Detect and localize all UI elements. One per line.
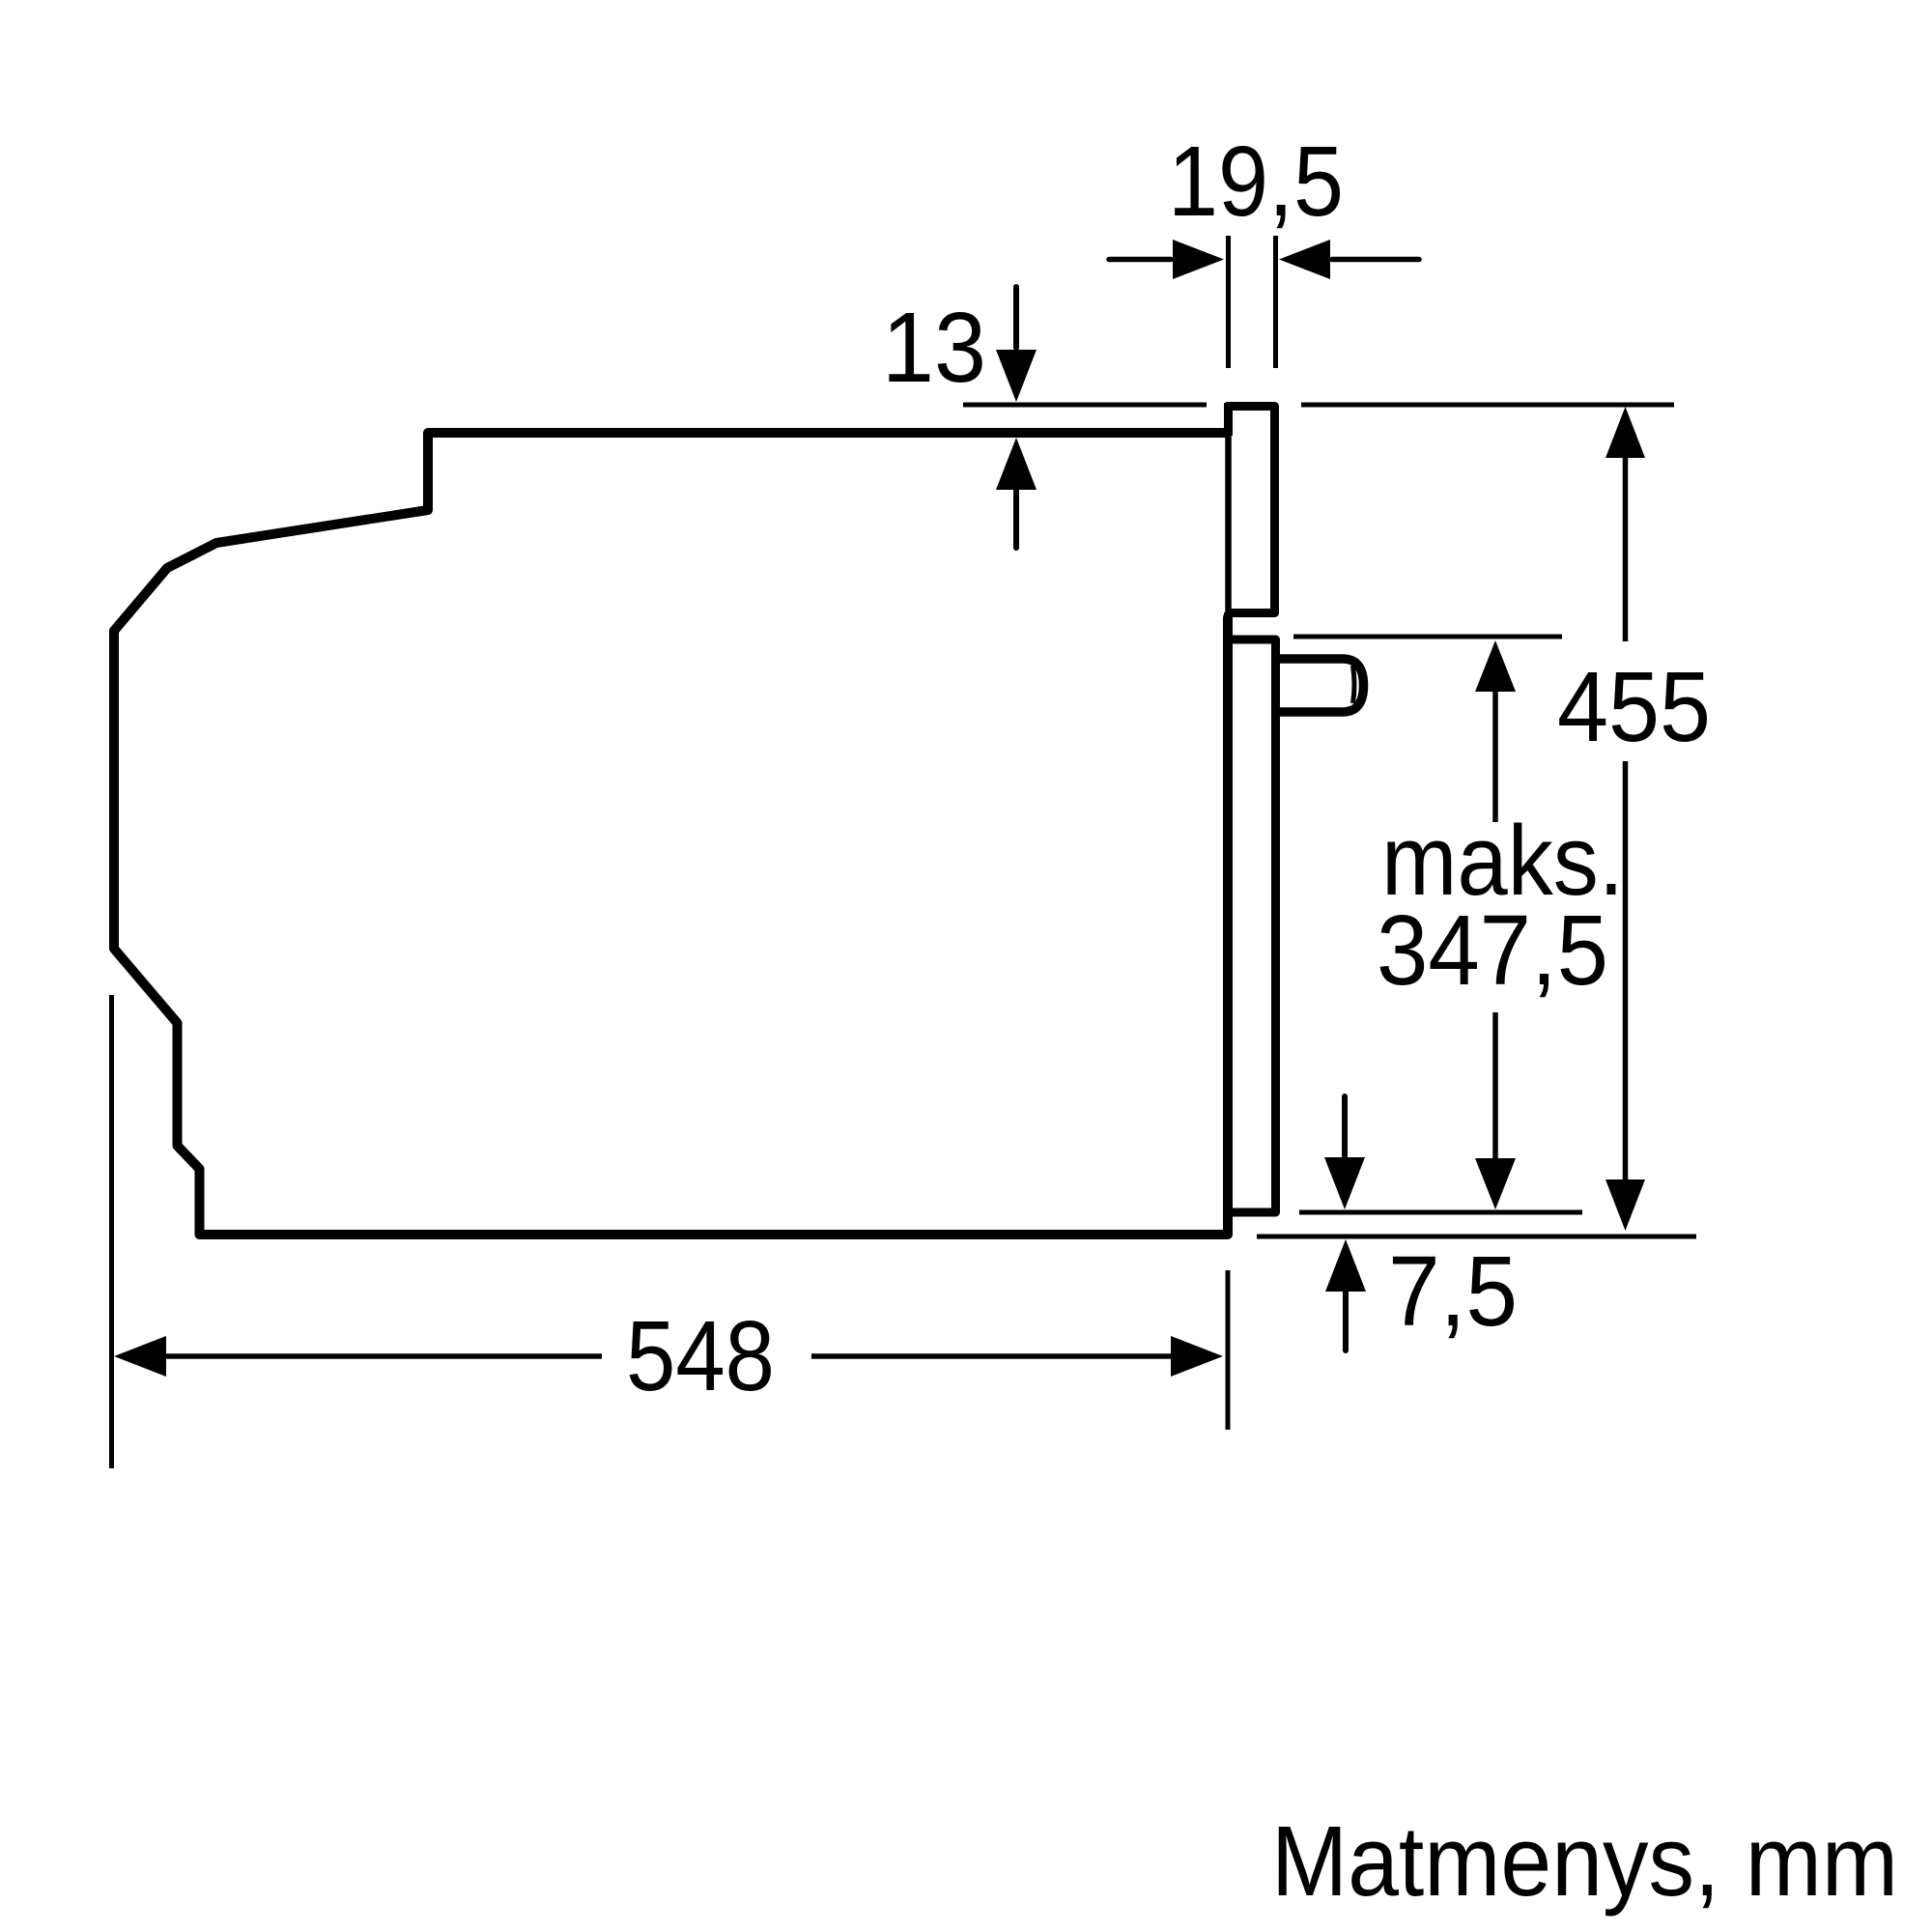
dim 13 down arrow bbox=[1013, 287, 1019, 348]
dim 13 up arrow bbox=[1013, 491, 1019, 548]
svg-text:Matmenys, mm: Matmenys, mm bbox=[1271, 1805, 1898, 1917]
body right face bbox=[1224, 612, 1232, 1235]
lower front panel bbox=[1228, 639, 1276, 1212]
dim 455 line + arrows bbox=[1623, 458, 1629, 1179]
extension line: 548 left bbox=[109, 995, 114, 1468]
extension line: 548 right bbox=[1226, 1270, 1231, 1430]
svg-text:7,5: 7,5 bbox=[1388, 1236, 1518, 1347]
dim 548 line + arrows bbox=[166, 1353, 1171, 1359]
dim 19,5 left arrow bbox=[1109, 257, 1171, 263]
dim 7,5 lower arrow (up) bbox=[1343, 1293, 1349, 1350]
thin reference line: appliance bottom level bbox=[1257, 1235, 1696, 1239]
knob face seam arc bbox=[1353, 666, 1355, 703]
thin reference line: top of niche (left of door) bbox=[963, 403, 1207, 408]
svg-text:13: 13 bbox=[882, 292, 986, 403]
thin reference line: top of niche (right of door) bbox=[1301, 403, 1674, 408]
dim maks 347,5 line + arrows bbox=[1492, 692, 1498, 1158]
control knob bbox=[1277, 659, 1364, 712]
svg-text:19,5: 19,5 bbox=[1168, 126, 1344, 237]
thin reference line: knob axis bbox=[1293, 635, 1562, 639]
svg-text:455: 455 bbox=[1557, 651, 1711, 762]
thin reference line: door bottom level bbox=[1299, 1210, 1582, 1215]
oven door left face bbox=[1224, 403, 1233, 436]
oven door (front, top) bbox=[1226, 407, 1275, 613]
oven body outline (side profile) bbox=[114, 433, 1228, 1235]
dim 19,5 right arrow bbox=[1332, 257, 1419, 263]
svg-text:347,5: 347,5 bbox=[1377, 895, 1608, 1006]
svg-text:548: 548 bbox=[626, 1300, 775, 1411]
dim 7,5 upper arrow (down) bbox=[1342, 1096, 1348, 1157]
extension line: door back (19,5 right) bbox=[1273, 236, 1278, 368]
extension line: door front (19,5 left) bbox=[1226, 236, 1231, 368]
